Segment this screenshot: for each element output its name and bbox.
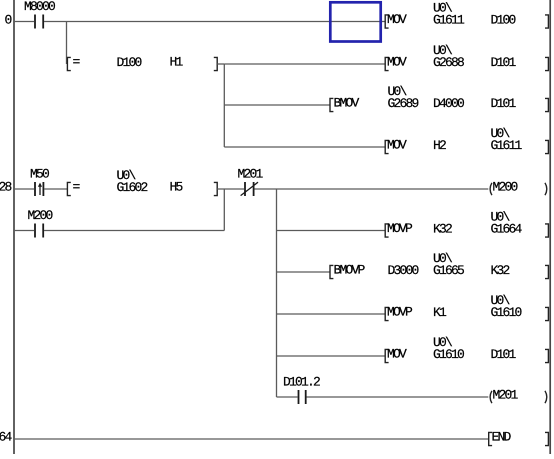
wire: [223, 189, 225, 231]
svg-text:64: 64: [0, 430, 12, 445]
svg-text:M200: M200: [27, 208, 52, 223]
wire: [277, 313, 386, 315]
svg-text:H5: H5: [170, 180, 183, 195]
svg-text:H2: H2: [433, 138, 446, 153]
svg-text:G1664: G1664: [491, 222, 523, 237]
svg-text:D101.2: D101.2: [283, 375, 320, 390]
svg-text:K32: K32: [433, 222, 452, 237]
instruction [MOVP K32 U0\G1664]: [385, 224, 388, 237]
instruction [BMOV U0\G2689 D4000 D101]: [330, 98, 333, 111]
wire: [277, 396, 298, 398]
wire: [217, 63, 224, 65]
svg-text:D100: D100: [117, 55, 142, 70]
svg-text:G1602: G1602: [117, 180, 148, 195]
wire: [14, 438, 489, 440]
compare instruction [= D100 H1]: [67, 57, 70, 70]
wire: [44, 230, 224, 232]
wire: [66, 22, 68, 65]
wire: [277, 355, 386, 357]
svg-text:K1: K1: [433, 305, 447, 320]
wire: [276, 189, 278, 397]
wire: [255, 188, 489, 190]
svg-text:M8000: M8000: [24, 0, 55, 14]
wire: [44, 188, 67, 190]
svg-text:G1610: G1610: [491, 305, 522, 320]
svg-text:MOV: MOV: [387, 55, 407, 70]
svg-text:G1665: G1665: [433, 263, 464, 278]
svg-text:MOV: MOV: [387, 347, 407, 362]
svg-text:MOVP: MOVP: [387, 305, 413, 320]
instruction [MOVP K1 U0\G1610]: [385, 307, 388, 320]
coil M200: [490, 183, 492, 195]
wire: [307, 396, 489, 398]
wire: [14, 230, 34, 232]
instruction [END]: [489, 432, 492, 445]
svg-text:=: =: [73, 180, 81, 195]
wire: [224, 104, 330, 106]
svg-text:BMOVP: BMOVP: [334, 263, 366, 278]
wire: [277, 271, 331, 273]
wire: [223, 64, 225, 147]
instruction [MOV H2 U0\G1611]: [385, 140, 388, 153]
svg-text:K32: K32: [491, 263, 510, 278]
instruction [BMOVP D3000 U0\G1665 K32]: [330, 265, 333, 278]
instruction [MOV U0\G2688 D101]: [385, 57, 388, 70]
right power rail: [549, 0, 551, 454]
selection cursor (blue box): [330, 2, 380, 41]
svg-text:BMOV: BMOV: [334, 96, 360, 111]
svg-text:G2688: G2688: [433, 55, 464, 70]
coil M201: [490, 391, 492, 403]
wire: [217, 188, 244, 190]
contact M8000: [34, 15, 36, 29]
svg-text:28: 28: [0, 180, 11, 195]
left power rail: [13, 0, 15, 454]
wire: [224, 146, 385, 148]
svg-text:G1610: G1610: [433, 347, 464, 362]
svg-text:G1611: G1611: [491, 138, 523, 153]
svg-text:D101: D101: [491, 347, 517, 362]
svg-text:M201: M201: [493, 388, 519, 403]
svg-text:D101: D101: [491, 96, 517, 111]
svg-text:END: END: [492, 430, 512, 445]
instruction [MOV U0\G1610 D101]: [385, 349, 388, 362]
svg-text:D100: D100: [491, 13, 516, 28]
contact M200: [34, 224, 36, 238]
svg-text:D101: D101: [491, 55, 517, 70]
svg-text:=: =: [73, 55, 81, 70]
svg-text:MOV: MOV: [387, 138, 407, 153]
contact M201 falling pulse (slash): [244, 182, 246, 196]
wire: [277, 230, 386, 232]
wire: [14, 21, 34, 23]
wire: [224, 63, 385, 65]
svg-text:M200: M200: [493, 180, 518, 195]
svg-text:D3000: D3000: [388, 263, 419, 278]
svg-text:D4000: D4000: [433, 96, 464, 111]
contact M50 rising pulse: [34, 182, 36, 196]
svg-text:G2689: G2689: [388, 96, 419, 111]
wire: [44, 21, 385, 23]
instruction [MOV U0\G1611 D100]: [385, 15, 388, 28]
svg-text:H1: H1: [170, 55, 184, 70]
wire: [14, 188, 34, 190]
svg-text:M201: M201: [237, 167, 263, 182]
svg-text:G1611: G1611: [433, 13, 465, 28]
svg-text:0: 0: [4, 13, 11, 28]
contact D101.2: [298, 390, 300, 404]
compare instruction [= U0\G1602 H5]: [67, 182, 70, 195]
svg-text:MOV: MOV: [387, 12, 407, 27]
svg-text:M50: M50: [30, 167, 49, 182]
svg-text:MOVP: MOVP: [387, 221, 413, 236]
